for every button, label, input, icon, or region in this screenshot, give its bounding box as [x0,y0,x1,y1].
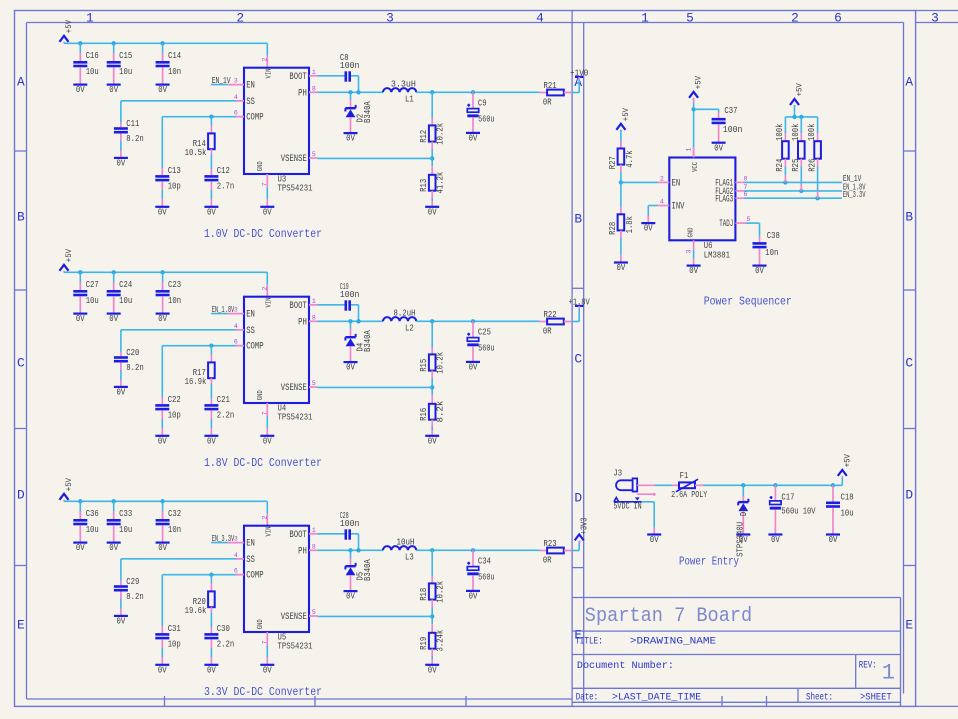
svg-text:C31: C31 [168,623,181,634]
svg-text:EN_1.8V: EN_1.8V [212,304,235,315]
svg-text:4: 4 [660,198,664,205]
svg-text:3.24k: 3.24k [436,630,446,652]
svg-text:R15: R15 [419,359,429,372]
svg-text:GND: GND [688,227,696,237]
svg-text:1: 1 [312,69,316,76]
svg-text:GND: GND [257,390,265,400]
svg-text:B: B [17,210,25,225]
svg-text:C15: C15 [119,50,132,61]
svg-text:5: 5 [747,216,751,223]
svg-text:0V: 0V [76,543,85,553]
svg-text:0V: 0V [428,207,437,217]
svg-text:8: 8 [312,314,316,321]
svg-text:2.2n: 2.2n [217,639,234,650]
svg-text:C14: C14 [168,50,181,61]
svg-text:C33: C33 [119,508,132,519]
svg-text:EN: EN [246,539,255,550]
svg-text:2: 2 [262,516,269,520]
svg-text:4: 4 [536,10,544,25]
svg-text:EN_3.3V: EN_3.3V [843,189,866,200]
svg-text:4.7k: 4.7k [625,150,635,167]
svg-text:0V: 0V [829,535,838,545]
svg-text:0V: 0V [263,665,272,675]
svg-text:0V: 0V [771,535,780,545]
svg-text:R23: R23 [544,538,557,549]
svg-text:C: C [574,352,582,367]
svg-text:SS: SS [246,97,255,108]
svg-text:560u: 560u [478,113,494,124]
svg-text:0V: 0V [469,134,478,144]
svg-text:0V: 0V [346,592,355,602]
svg-text:2: 2 [262,58,269,62]
svg-text:Power Entry: Power Entry [679,555,739,568]
svg-text:10u: 10u [119,66,132,77]
svg-text:6: 6 [234,110,238,117]
svg-text:5: 5 [312,380,316,387]
svg-text:4: 4 [234,552,238,559]
svg-text:100n: 100n [340,60,360,71]
svg-text:VSENSE: VSENSE [281,383,307,394]
svg-text:TADJ: TADJ [719,219,733,230]
svg-text:100k: 100k [775,124,785,142]
svg-text:LM3881: LM3881 [704,250,730,261]
svg-text:J3: J3 [613,468,622,479]
svg-text:VSENSE: VSENSE [281,154,307,165]
svg-text:B340A: B340A [363,330,373,352]
svg-text:C17: C17 [781,492,794,503]
svg-text:C29: C29 [126,576,139,587]
svg-text:1.0V DC-DC Converter: 1.0V DC-DC Converter [204,227,322,241]
svg-text:10p: 10p [168,410,181,421]
svg-text:7: 7 [262,412,269,416]
svg-text:0V: 0V [158,207,167,217]
svg-text:7: 7 [262,641,269,645]
svg-text:+5V: +5V [65,249,74,262]
svg-text:100n: 100n [723,124,743,135]
svg-text:0V: 0V [650,535,659,545]
svg-text:E: E [17,618,25,633]
svg-text:560u: 560u [478,342,494,353]
svg-text:C: C [17,356,25,371]
svg-text:0V: 0V [617,263,626,273]
svg-text:1: 1 [86,10,94,25]
svg-text:Document Number:: Document Number: [577,660,674,672]
svg-text:3: 3 [234,78,238,85]
svg-text:560u: 560u [478,571,494,582]
svg-text:10n: 10n [168,524,181,535]
svg-text:0V: 0V [207,436,216,446]
svg-text:GND: GND [257,161,265,171]
svg-text:>DRAWING_NAME: >DRAWING_NAME [630,636,716,648]
svg-text:COMP: COMP [246,113,263,124]
svg-text:41.2k: 41.2k [436,172,446,194]
svg-text:8.2n: 8.2n [126,591,143,602]
svg-text:0V: 0V [158,543,167,553]
svg-text:BOOT: BOOT [289,301,306,312]
svg-text:R18: R18 [419,588,429,601]
svg-text:3: 3 [234,307,238,314]
svg-text:5: 5 [312,609,316,616]
svg-text:100n: 100n [340,289,360,300]
svg-text:0V: 0V [117,388,126,398]
svg-text:10u: 10u [86,66,99,77]
svg-text:10p: 10p [168,639,181,650]
svg-text:0V: 0V [428,665,437,675]
svg-text:L2: L2 [405,323,414,334]
svg-text:C16: C16 [86,50,99,61]
svg-text:C9: C9 [478,98,487,109]
svg-text:3: 3 [686,250,693,254]
svg-text:1: 1 [641,10,649,25]
svg-text:0V: 0V [76,85,85,95]
svg-text:0R: 0R [543,325,552,336]
svg-text:2.6A POLY: 2.6A POLY [671,489,707,500]
svg-text:10.2k: 10.2k [436,352,446,374]
svg-text:19.6k: 19.6k [185,605,207,616]
svg-text:10u: 10u [841,507,854,518]
svg-text:L3: L3 [405,552,414,563]
svg-text:16.9k: 16.9k [185,376,207,387]
svg-text:VIN: VIN [266,298,274,308]
svg-text:>LAST_DATE_TIME: >LAST_DATE_TIME [612,692,701,704]
svg-text:1: 1 [882,661,895,686]
svg-text:C22: C22 [168,394,181,405]
svg-text:VCC: VCC [692,161,700,171]
svg-text:+1V0: +1V0 [570,67,588,78]
svg-text:EN: EN [246,81,255,92]
svg-text:PH: PH [298,317,307,328]
svg-text:0V: 0V [158,665,167,675]
svg-text:0V: 0V [755,266,764,276]
svg-text:7: 7 [262,183,269,187]
svg-text:0V: 0V [158,436,167,446]
svg-text:10n: 10n [168,295,181,306]
svg-text:R21: R21 [544,80,557,91]
svg-text:R25: R25 [791,159,801,172]
svg-text:GND: GND [257,619,265,629]
svg-text:R13: R13 [419,179,429,192]
svg-text:10.2k: 10.2k [436,123,446,145]
svg-text:10.5k: 10.5k [185,147,207,158]
svg-text:+5V: +5V [65,478,74,491]
svg-text:C11: C11 [126,118,139,129]
svg-text:R12: R12 [419,130,429,143]
svg-text:100k: 100k [807,124,817,142]
svg-text:STPS340U: STPS340U [735,522,745,557]
svg-text:5: 5 [312,151,316,158]
svg-text:R24: R24 [775,159,785,172]
svg-text:2: 2 [262,287,269,291]
svg-text:TPS54231: TPS54231 [278,183,313,194]
svg-text:C37: C37 [724,105,737,116]
svg-text:2.7n: 2.7n [217,181,234,192]
svg-text:D: D [905,488,913,503]
svg-text:EN: EN [246,310,255,321]
svg-text:C18: C18 [841,492,854,503]
svg-text:VIN: VIN [266,69,274,79]
svg-text:C30: C30 [217,623,230,634]
svg-text:R22: R22 [544,309,557,320]
svg-text:10u: 10u [119,524,132,535]
svg-text:0V: 0V [714,143,723,153]
svg-text:0V: 0V [109,314,118,324]
svg-text:R28: R28 [608,222,618,235]
svg-text:3.3uH: 3.3uH [391,79,416,90]
svg-text:0V: 0V [469,592,478,602]
svg-text:C20: C20 [126,347,139,358]
svg-text:C24: C24 [119,279,132,290]
svg-text:0V: 0V [346,363,355,373]
svg-text:+5V: +5V [796,83,805,96]
svg-text:D7: D7 [739,507,749,516]
svg-text:BOOT: BOOT [289,72,306,83]
svg-text:A: A [905,75,913,90]
svg-text:C34: C34 [478,556,491,567]
svg-text:0R: 0R [543,96,552,107]
svg-text:F1: F1 [680,470,689,481]
svg-text:10u: 10u [119,295,132,306]
svg-text:VSENSE: VSENSE [281,612,307,623]
svg-text:3.3V DC-DC Converter: 3.3V DC-DC Converter [204,685,322,699]
svg-text:8: 8 [744,175,748,182]
svg-text:8.2n: 8.2n [126,362,143,373]
svg-text:0V: 0V [207,207,216,217]
svg-text:C13: C13 [168,165,181,176]
svg-text:+5V: +5V [695,76,704,89]
svg-text:C27: C27 [86,279,99,290]
svg-text:5VDC IN: 5VDC IN [613,501,641,512]
svg-text:4: 4 [234,94,238,101]
svg-text:+5V: +5V [843,454,852,467]
svg-text:8: 8 [312,85,316,92]
svg-text:C12: C12 [217,165,230,176]
svg-text:2: 2 [236,10,244,25]
svg-text:REV:: REV: [859,660,877,672]
svg-text:C32: C32 [168,508,181,519]
svg-text:BOOT: BOOT [289,530,306,541]
svg-text:3: 3 [931,10,939,25]
svg-text:1.8V DC-DC Converter: 1.8V DC-DC Converter [204,456,322,470]
svg-text:0V: 0V [346,134,355,144]
svg-text:SS: SS [246,326,255,337]
svg-text:7: 7 [744,184,748,191]
svg-text:8.2uH: 8.2uH [394,308,416,319]
svg-text:FLAG3: FLAG3 [715,194,733,205]
svg-text:560u 10V: 560u 10V [781,506,816,517]
svg-text:100k: 100k [791,124,801,142]
svg-text:D: D [574,491,582,506]
svg-text:PH: PH [298,546,307,557]
svg-text:TPS54231: TPS54231 [278,412,313,423]
svg-text:6: 6 [834,10,842,25]
svg-text:0V: 0V [469,363,478,373]
svg-text:3: 3 [234,536,238,543]
svg-text:2: 2 [660,175,664,182]
svg-text:B: B [574,212,582,227]
svg-text:Spartan 7 Board: Spartan 7 Board [585,605,752,628]
svg-text:B340A: B340A [363,101,373,123]
svg-text:B340A: B340A [363,559,373,581]
svg-text:C38: C38 [767,230,780,241]
svg-text:C36: C36 [86,508,99,519]
svg-text:C25: C25 [478,327,491,338]
svg-text:0R: 0R [543,554,552,565]
svg-text:0V: 0V [689,266,698,276]
svg-text:C: C [905,356,913,371]
svg-text:10uH: 10uH [397,537,415,548]
svg-text:EN: EN [672,178,681,189]
svg-text:INV: INV [672,202,685,213]
svg-text:10p: 10p [168,181,181,192]
svg-text:0V: 0V [644,224,653,234]
svg-text:10.2k: 10.2k [436,581,446,603]
svg-text:R26: R26 [807,159,817,172]
svg-text:+5V: +5V [622,108,631,121]
svg-text:4: 4 [234,323,238,330]
svg-text:0V: 0V [158,314,167,324]
svg-text:8: 8 [312,543,316,550]
svg-text:6: 6 [234,339,238,346]
svg-text:0V: 0V [263,207,272,217]
svg-text:R16: R16 [419,408,429,421]
svg-text:10n: 10n [168,66,181,77]
svg-text:100n: 100n [340,518,360,529]
svg-text:10n: 10n [765,247,778,258]
svg-text:COMP: COMP [246,342,263,353]
svg-text:B: B [905,210,913,225]
svg-text:5: 5 [686,10,694,25]
svg-text:L1: L1 [405,94,414,105]
svg-text:3: 3 [386,10,394,25]
svg-text:+5V: +5V [65,20,74,33]
svg-text:6: 6 [744,191,748,198]
svg-text:R19: R19 [419,637,429,650]
svg-text:Power Sequencer: Power Sequencer [704,296,792,309]
svg-text:2.2n: 2.2n [217,410,234,421]
svg-text:>SHEET: >SHEET [860,692,892,704]
svg-text:VIN: VIN [266,527,274,537]
svg-text:Sheet:: Sheet: [806,692,833,704]
svg-text:EN_3.3V: EN_3.3V [212,533,235,544]
svg-text:1: 1 [312,527,316,534]
svg-text:+3V3: +3V3 [579,518,589,535]
svg-text:TPS54231: TPS54231 [278,641,313,652]
svg-text:0V: 0V [117,617,126,627]
svg-text:C23: C23 [168,279,181,290]
svg-text:COMP: COMP [246,571,263,582]
svg-text:0V: 0V [263,436,272,446]
svg-text:1: 1 [312,298,316,305]
svg-text:Date:: Date: [576,692,598,704]
svg-text:0V: 0V [428,436,437,446]
svg-text:EN_1V: EN_1V [212,75,231,86]
svg-text:0V: 0V [207,665,216,675]
svg-text:TITLE:: TITLE: [575,636,603,648]
svg-text:1: 1 [686,148,693,152]
svg-text:8.2n: 8.2n [126,133,143,144]
svg-text:A: A [17,75,25,90]
svg-text:E: E [905,618,913,633]
svg-text:R27: R27 [608,156,618,169]
svg-text:SS: SS [246,555,255,566]
svg-text:C21: C21 [217,394,230,405]
svg-text:0V: 0V [109,543,118,553]
svg-text:0V: 0V [117,159,126,169]
svg-text:10u: 10u [86,295,99,306]
svg-text:PH: PH [298,88,307,99]
svg-text:2: 2 [791,10,799,25]
svg-text:D: D [17,488,25,503]
svg-text:0V: 0V [76,314,85,324]
svg-text:0V: 0V [109,85,118,95]
svg-text:1.8k: 1.8k [625,216,635,233]
svg-text:8.2k: 8.2k [436,401,446,423]
svg-text:+1.8V: +1.8V [569,296,591,307]
svg-text:0V: 0V [158,85,167,95]
svg-text:10u: 10u [86,524,99,535]
svg-text:6: 6 [234,568,238,575]
